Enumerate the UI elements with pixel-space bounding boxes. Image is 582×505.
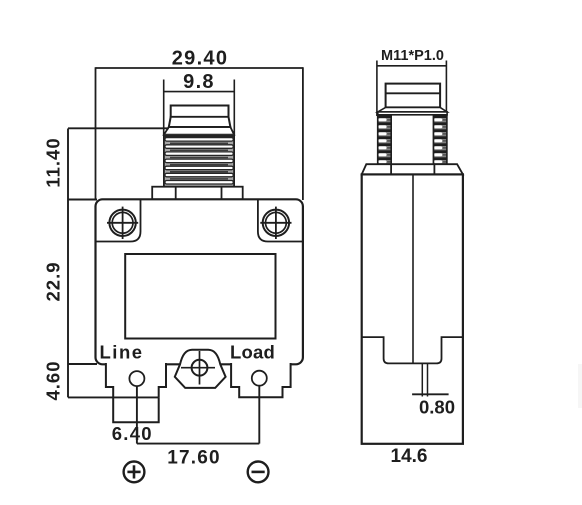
dimension 9.8 label — [164, 71, 235, 135]
17.60 dimension — [137, 386, 259, 469]
dimension 29.40 label — [96, 48, 303, 201]
hex nut bar (front) — [152, 187, 243, 200]
screw left — [107, 207, 138, 239]
plus polarity symbol — [124, 462, 145, 483]
threaded bushing (front) — [164, 135, 234, 187]
svg-text:6.40: 6.40 — [112, 423, 153, 444]
screw boss contour left — [96, 199, 141, 241]
push button cap (side) — [386, 84, 441, 108]
left dimension chain — [68, 128, 169, 397]
svg-text:14.6: 14.6 — [391, 446, 428, 467]
button flare (side) — [378, 107, 447, 114]
mounting boss hexagon — [175, 350, 226, 388]
minus polarity symbol — [248, 462, 269, 483]
screw boss contour right — [258, 199, 303, 241]
threaded bushing right stack (side) — [433, 115, 447, 164]
svg-text:29.40: 29.40 — [172, 48, 229, 70]
threaded bushing left stack (side) — [378, 115, 392, 164]
label window rectangle — [125, 254, 275, 339]
svg-text:11.40: 11.40 — [43, 137, 64, 187]
Line terminal tab — [106, 363, 166, 397]
push button cap (front) — [169, 106, 231, 128]
terminal blade box + 6.40 dimension — [112, 397, 159, 444]
thread spec M11*P1.0 — [377, 48, 447, 116]
button flare (front) — [164, 127, 234, 135]
svg-text:4.60: 4.60 — [43, 360, 64, 400]
Load terminal tab — [231, 363, 291, 397]
svg-text:9.8: 9.8 — [183, 71, 215, 93]
svg-text:22.9: 22.9 — [43, 261, 64, 301]
bottom cup — [362, 337, 463, 363]
breaker body (front) — [96, 199, 303, 364]
svg-text:17.60: 17.60 — [167, 448, 221, 469]
0.80 dimension — [412, 394, 455, 417]
svg-text:Line: Line — [100, 342, 144, 363]
screw right — [260, 207, 291, 239]
svg-text:Load: Load — [230, 342, 275, 363]
center blade line — [412, 174, 414, 363]
faint edge artifact — [578, 364, 582, 408]
top flange band (side) — [362, 164, 463, 174]
breaker body (side) — [362, 174, 463, 443]
terminal pin (side) — [422, 363, 427, 396]
svg-text:M11*P1.0: M11*P1.0 — [381, 48, 444, 64]
svg-text:0.80: 0.80 — [419, 397, 455, 418]
